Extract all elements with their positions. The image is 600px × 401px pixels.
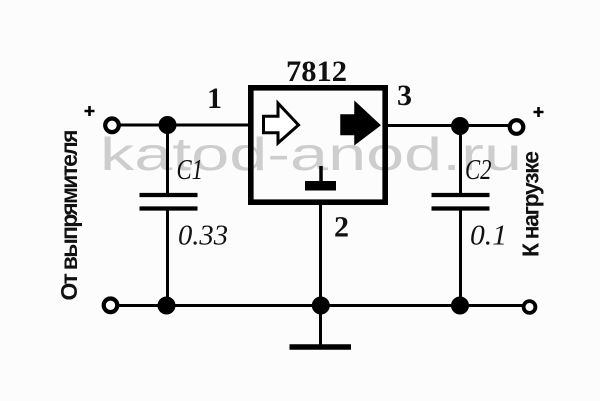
svg-text:К нагрузке: К нагрузке [518,151,544,257]
svg-text:katod-anod.ru: katod-anod.ru [100,128,522,180]
svg-text:C1: C1 [177,154,204,186]
svg-text:C2: C2 [465,154,492,186]
svg-text:1: 1 [207,82,222,115]
svg-text:0.1: 0.1 [470,220,507,252]
svg-text:3: 3 [397,79,412,112]
svg-text:0.33: 0.33 [178,220,228,252]
svg-text:От выпрямителя: От выпрямителя [56,130,82,301]
svg-text:2: 2 [334,211,349,244]
svg-text:7812: 7812 [286,55,347,88]
